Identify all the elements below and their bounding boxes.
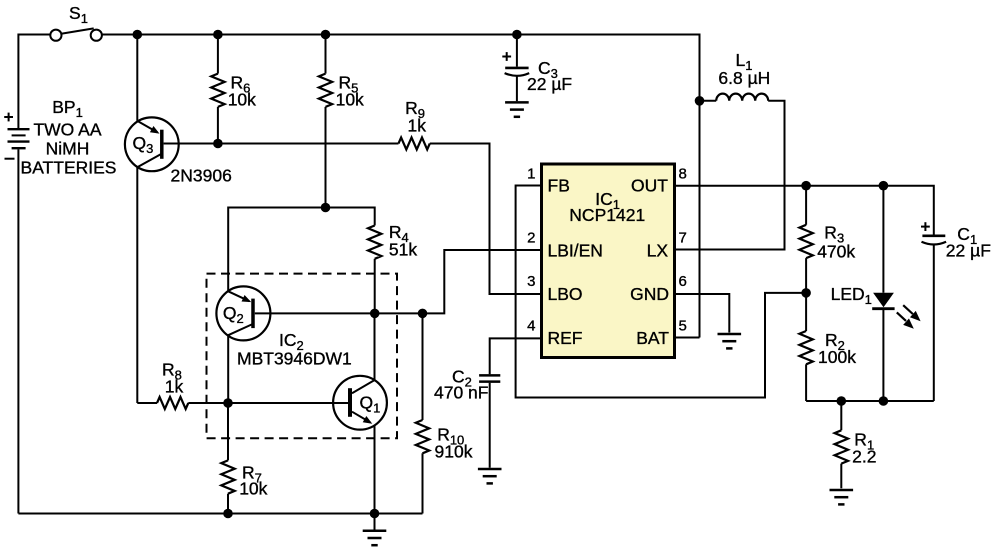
- svg-text:FB: FB: [548, 176, 570, 196]
- svg-text:2.2: 2.2: [852, 447, 876, 467]
- svg-text:8: 8: [679, 165, 687, 182]
- svg-text:BATTERIES: BATTERIES: [21, 158, 117, 178]
- svg-text:NCP1421: NCP1421: [569, 205, 645, 225]
- svg-text:10k: 10k: [336, 89, 364, 109]
- svg-text:REF: REF: [548, 328, 583, 348]
- svg-text:NiMH: NiMH: [46, 139, 90, 159]
- svg-text:1: 1: [527, 165, 535, 182]
- svg-text:7: 7: [679, 230, 687, 247]
- svg-text:LX: LX: [647, 241, 669, 261]
- svg-text:100k: 100k: [818, 347, 856, 367]
- svg-text:6.8 µH: 6.8 µH: [718, 68, 770, 88]
- svg-text:470 nF: 470 nF: [434, 382, 488, 402]
- svg-text:TWO AA: TWO AA: [33, 120, 101, 140]
- svg-text:4: 4: [527, 317, 535, 334]
- svg-text:1k: 1k: [165, 377, 184, 397]
- svg-text:5: 5: [679, 317, 687, 334]
- svg-text:2N3906: 2N3906: [171, 165, 232, 185]
- svg-text:LBI/EN: LBI/EN: [548, 241, 603, 261]
- svg-text:10k: 10k: [228, 89, 256, 109]
- svg-text:51k: 51k: [389, 239, 417, 259]
- svg-text:910k: 910k: [435, 441, 473, 461]
- svg-text:GND: GND: [630, 284, 669, 304]
- svg-text:1k: 1k: [408, 116, 427, 136]
- svg-text:22 µF: 22 µF: [946, 241, 991, 261]
- svg-text:10k: 10k: [239, 479, 267, 499]
- svg-text:OUT: OUT: [631, 176, 668, 196]
- svg-text:BAT: BAT: [636, 328, 669, 348]
- svg-text:2: 2: [527, 230, 535, 247]
- svg-text:MBT3946DW1: MBT3946DW1: [237, 348, 352, 368]
- svg-text:470k: 470k: [817, 241, 855, 261]
- svg-text:LBO: LBO: [548, 284, 583, 304]
- svg-text:3: 3: [527, 273, 535, 290]
- svg-text:22 µF: 22 µF: [527, 74, 572, 94]
- svg-text:6: 6: [679, 273, 687, 290]
